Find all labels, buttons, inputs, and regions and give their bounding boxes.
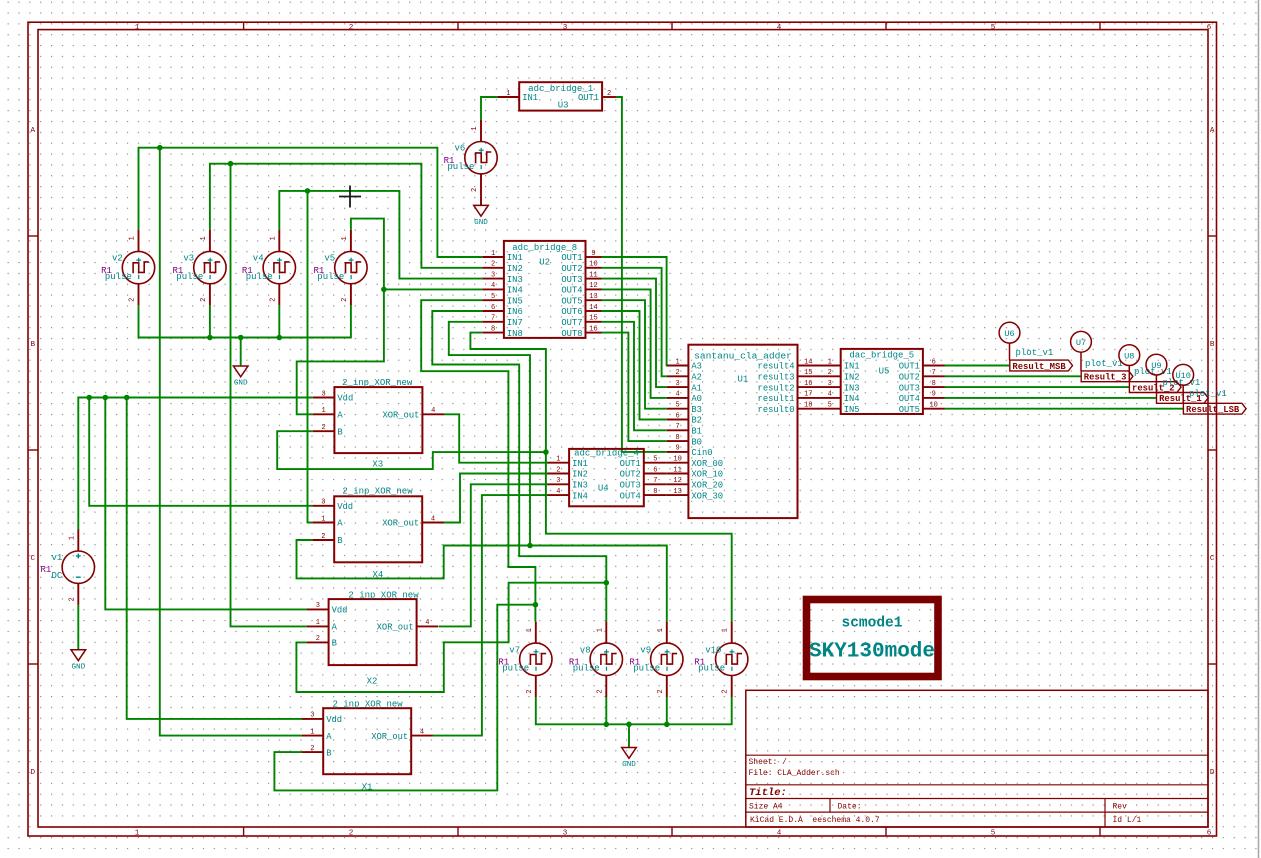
svg-text:1: 1 xyxy=(135,830,140,838)
svg-text:U7: U7 xyxy=(1076,338,1086,348)
svg-text:result4: result4 xyxy=(758,362,795,372)
svg-text:XOR_out: XOR_out xyxy=(382,411,419,421)
svg-text:5: 5 xyxy=(675,402,679,410)
labels for v9 xyxy=(629,645,660,673)
global label result_2 xyxy=(1129,382,1181,394)
svg-text:1: 1 xyxy=(129,236,137,240)
svg-text:10: 10 xyxy=(589,261,597,269)
svg-text:1: 1 xyxy=(135,24,140,32)
wire gnd stem lower xyxy=(628,724,630,747)
svg-text:1: 1 xyxy=(316,619,320,627)
svg-text:IN4: IN4 xyxy=(507,286,523,296)
labels for v3 xyxy=(173,254,204,282)
svg-text:X1: X1 xyxy=(362,783,373,793)
svg-text:3: 3 xyxy=(321,499,325,507)
svg-text:pulse: pulse xyxy=(105,272,132,282)
svg-text:4: 4 xyxy=(675,391,679,399)
svg-text:1: 1 xyxy=(471,126,479,130)
svg-text:2_inp_XOR_new: 2_inp_XOR_new xyxy=(342,487,413,497)
wire v4 top to U2 IN3 xyxy=(279,191,482,279)
voltage source v8 (pulse) xyxy=(590,622,622,697)
svg-text:dac_bridge_5: dac_bridge_5 xyxy=(849,351,914,361)
svg-text:IN4: IN4 xyxy=(572,491,588,501)
svg-text:9: 9 xyxy=(591,250,595,258)
wire X1 out to U4 IN4 xyxy=(433,495,548,735)
svg-text:5: 5 xyxy=(991,24,996,32)
labels for v10 xyxy=(694,645,725,673)
svg-text:2: 2 xyxy=(310,745,314,753)
svg-text:Result_3: Result_3 xyxy=(1084,373,1127,383)
junction v3 bus / X2.A riser xyxy=(228,161,234,167)
svg-text:scmode1: scmode1 xyxy=(842,616,903,632)
wire U2 IN8 to v10 xyxy=(470,333,731,622)
svg-text:B: B xyxy=(337,536,342,546)
svg-text:2: 2 xyxy=(269,298,277,302)
svg-text:GND: GND xyxy=(234,380,248,388)
svg-text:Vdd: Vdd xyxy=(332,606,348,616)
pin wire v6 to ground xyxy=(480,195,482,206)
svg-text:1: 1 xyxy=(269,236,277,240)
junction v5 / IN4 xyxy=(381,287,387,293)
svg-text:U4: U4 xyxy=(598,484,609,494)
svg-text:result1: result1 xyxy=(758,394,795,404)
svg-text:3: 3 xyxy=(321,390,325,398)
editor crosshair cursor xyxy=(339,186,361,208)
svg-text:IN5: IN5 xyxy=(507,296,523,306)
junction v7 / IN5 / X1.B xyxy=(533,602,539,608)
svg-text:plot_v1: plot_v1 xyxy=(1085,359,1123,369)
svg-text:U1: U1 xyxy=(737,375,748,385)
svg-text:4: 4 xyxy=(491,282,495,290)
svg-text:B3: B3 xyxy=(691,405,702,415)
svg-text:A: A xyxy=(337,411,343,421)
svg-text:v5: v5 xyxy=(324,254,335,264)
svg-text:A: A xyxy=(332,623,338,633)
svg-text:result0: result0 xyxy=(758,405,795,415)
svg-text:IN1: IN1 xyxy=(507,253,523,263)
wire v3 top to U2 IN2 xyxy=(210,164,482,268)
svg-text:IN1: IN1 xyxy=(522,93,538,103)
junction Vdd / X2 xyxy=(103,395,109,401)
svg-text:U8: U8 xyxy=(1124,352,1134,362)
svg-text:4: 4 xyxy=(777,24,782,32)
svg-text:v8: v8 xyxy=(580,645,591,655)
svg-text:A1: A1 xyxy=(691,383,702,393)
plot component U8 xyxy=(1119,345,1172,382)
svg-text:Rev: Rev xyxy=(1113,802,1128,811)
svg-text:IN8: IN8 xyxy=(507,329,523,339)
svg-text:DC: DC xyxy=(52,571,63,581)
svg-text:OUT7: OUT7 xyxy=(561,318,582,328)
svg-text:1: 1 xyxy=(321,407,325,415)
svg-text:7: 7 xyxy=(491,315,495,323)
svg-text:SKY130mode: SKY130mode xyxy=(809,641,935,664)
svg-text:A2: A2 xyxy=(691,373,702,383)
svg-text:OUT8: OUT8 xyxy=(561,329,582,339)
plot component U9 xyxy=(1146,354,1200,392)
wire Vdd to X1 xyxy=(127,398,302,719)
labels for v4 xyxy=(242,254,273,282)
plot component U7 xyxy=(1071,331,1123,371)
voltage source v2 (pulse) xyxy=(122,230,154,305)
svg-text:OUT1: OUT1 xyxy=(561,253,582,263)
svg-text:v9: v9 xyxy=(640,645,651,655)
labels for v2 xyxy=(101,254,132,282)
wire v2 net to X1.A xyxy=(160,148,302,736)
wire v8 bottom xyxy=(605,697,607,724)
svg-text:1: 1 xyxy=(596,628,604,632)
svg-text:2: 2 xyxy=(596,689,604,693)
svg-text:U10: U10 xyxy=(1175,371,1190,381)
svg-text:15: 15 xyxy=(589,315,597,323)
svg-text:U3: U3 xyxy=(558,101,569,111)
wire U3 IN1 to v6 xyxy=(481,97,498,120)
svg-text:pulse: pulse xyxy=(447,162,474,172)
svg-text:2: 2 xyxy=(321,424,325,432)
svg-text:plot_v1: plot_v1 xyxy=(1016,348,1054,358)
svg-text:pulse: pulse xyxy=(573,664,600,674)
svg-text:5: 5 xyxy=(991,830,996,838)
svg-text:U9: U9 xyxy=(1151,361,1161,371)
voltage source v3 (pulse) xyxy=(194,230,226,305)
svg-text:7: 7 xyxy=(675,423,679,431)
IC U2 (adc_bridge_8) xyxy=(482,241,601,339)
svg-text:IN1: IN1 xyxy=(844,362,860,372)
wire gnd stem upper xyxy=(240,338,242,367)
svg-text:6: 6 xyxy=(932,358,936,366)
labels for v6 xyxy=(444,144,475,172)
svg-text:10: 10 xyxy=(929,402,937,410)
svg-text:13: 13 xyxy=(673,488,681,496)
svg-text:2: 2 xyxy=(607,90,611,98)
svg-text:R1: R1 xyxy=(41,565,52,575)
svg-text:A0: A0 xyxy=(691,394,702,404)
svg-text:3: 3 xyxy=(556,477,560,485)
voltage source v10 (pulse) xyxy=(716,622,748,697)
voltage source v7 (pulse) xyxy=(520,622,552,697)
ground symbol below v2-v5 bus xyxy=(233,366,248,388)
IC X1 (2_inp_XOR_new) xyxy=(302,699,433,792)
junction bus v9 xyxy=(664,722,670,728)
svg-text:v4: v4 xyxy=(253,254,264,264)
svg-text:7: 7 xyxy=(653,477,657,485)
svg-text:IN4: IN4 xyxy=(844,394,860,404)
svg-text:B0: B0 xyxy=(691,437,702,447)
wire X2.B to v8 net xyxy=(296,583,606,692)
svg-text:pulse: pulse xyxy=(633,664,660,674)
svg-text:IN2: IN2 xyxy=(507,264,523,274)
svg-text:17: 17 xyxy=(804,391,812,399)
junction v4 bus / X4.A riser xyxy=(305,188,311,194)
svg-text:3: 3 xyxy=(316,602,320,610)
svg-text:D: D xyxy=(1210,769,1215,777)
IC U3 (adc_bridge_1) xyxy=(498,82,616,110)
svg-text:2_inp_XOR_new: 2_inp_XOR_new xyxy=(348,590,419,600)
svg-text:OUT4: OUT4 xyxy=(620,491,641,501)
svg-text:2: 2 xyxy=(129,298,137,302)
svg-text:IN6: IN6 xyxy=(507,307,523,317)
svg-text:U2: U2 xyxy=(539,258,550,268)
svg-text:A3: A3 xyxy=(691,362,702,372)
svg-text:2_inp_XOR_new: 2_inp_XOR_new xyxy=(332,699,403,709)
svg-text:GND: GND xyxy=(474,219,488,227)
svg-text:XOR_out: XOR_out xyxy=(371,732,408,742)
wire U2 IN6 to v8 xyxy=(432,311,606,622)
scmode1 / SKY130mode annotation box xyxy=(807,600,939,677)
svg-text:11: 11 xyxy=(589,271,597,279)
wire v1 bottom to GND xyxy=(77,605,79,650)
svg-text:2: 2 xyxy=(316,635,320,643)
svg-text:OUT5: OUT5 xyxy=(899,405,920,415)
svg-text:2: 2 xyxy=(341,298,349,302)
svg-text:U6: U6 xyxy=(1004,329,1014,339)
svg-text:XOR_00: XOR_00 xyxy=(691,459,723,469)
svg-text:GND: GND xyxy=(71,663,85,671)
wire X4.B to v9 net xyxy=(297,540,667,622)
svg-text:1: 1 xyxy=(200,236,208,240)
svg-text:10: 10 xyxy=(673,456,681,464)
IC U5 (dac_bridge_5) xyxy=(819,349,945,415)
wire v1 to Vdd rail xyxy=(78,398,312,530)
svg-text:OUT6: OUT6 xyxy=(561,307,582,317)
wire X3.B to v10 net xyxy=(277,431,546,469)
svg-text:3: 3 xyxy=(675,380,679,388)
svg-text:OUT1: OUT1 xyxy=(620,459,641,469)
svg-text:12: 12 xyxy=(589,282,597,290)
junction v9 / IN7 / X4.B xyxy=(527,543,533,549)
svg-text:OUT4: OUT4 xyxy=(561,286,582,296)
svg-text:IN3: IN3 xyxy=(507,275,523,285)
junction Vdd / X4 xyxy=(86,395,92,401)
svg-text:2: 2 xyxy=(556,466,560,474)
svg-text:2: 2 xyxy=(828,369,832,377)
wire v3 net to X2.A xyxy=(231,164,308,627)
svg-text:B: B xyxy=(332,639,337,649)
svg-text:2: 2 xyxy=(349,24,354,32)
svg-text:15: 15 xyxy=(804,369,812,377)
wire U3 OUT1 to U1 Cin0 xyxy=(616,97,667,452)
svg-text:B: B xyxy=(31,341,36,349)
junction v8 / IN6 / X2.B xyxy=(604,580,610,586)
svg-text:1: 1 xyxy=(526,628,534,632)
svg-text:OUT3: OUT3 xyxy=(620,481,641,491)
junction v2 bus / X1.A riser xyxy=(157,145,163,151)
svg-text:adc_bridge_8: adc_bridge_8 xyxy=(512,243,577,253)
wire Vdd to X2 xyxy=(105,398,307,610)
svg-text:1: 1 xyxy=(310,728,314,736)
IC X2 (2_inp_XOR_new) xyxy=(307,590,438,686)
svg-text:5: 5 xyxy=(828,402,832,410)
global label Result_3 xyxy=(1081,371,1133,383)
wire v4 net to X4.A xyxy=(308,191,313,523)
voltage source v6 (pulse) xyxy=(465,120,497,195)
svg-text:3: 3 xyxy=(310,712,314,720)
svg-text:OUT2: OUT2 xyxy=(620,470,641,480)
svg-text:2: 2 xyxy=(491,261,495,269)
svg-text:8: 8 xyxy=(675,434,679,442)
wires U5 OUT1-OUT5 to Result labels xyxy=(945,365,1010,367)
voltage source v9 (pulse) xyxy=(651,622,683,697)
junction Vdd / X1 xyxy=(124,395,130,401)
labels for v1 xyxy=(41,553,63,581)
svg-text:2: 2 xyxy=(321,533,325,541)
svg-text:2: 2 xyxy=(68,597,76,601)
plot component U6 xyxy=(999,322,1053,360)
svg-text:X4: X4 xyxy=(372,570,383,580)
svg-text:C: C xyxy=(31,555,36,563)
labels for v8 xyxy=(569,645,600,673)
svg-text:11: 11 xyxy=(673,466,681,474)
svg-text:B: B xyxy=(326,748,331,758)
svg-text:OUT1: OUT1 xyxy=(578,93,599,103)
svg-text:D: D xyxy=(31,769,36,777)
svg-text:v7: v7 xyxy=(509,645,520,655)
wire v9 bottom xyxy=(666,697,668,724)
wire Vdd to X4 xyxy=(89,398,312,506)
voltage source v1 (dc) xyxy=(62,530,94,605)
svg-text:OUT4: OUT4 xyxy=(899,394,920,404)
svg-text:16: 16 xyxy=(804,380,812,388)
svg-text:1: 1 xyxy=(722,628,730,632)
svg-text:3: 3 xyxy=(563,24,568,32)
svg-text:6: 6 xyxy=(675,412,679,420)
wire X3 out to U4 IN1 xyxy=(444,414,548,462)
svg-text:2: 2 xyxy=(526,689,534,693)
junction gnd bus stem xyxy=(238,335,244,341)
svg-text:1: 1 xyxy=(491,250,495,258)
svg-text:4: 4 xyxy=(431,407,435,415)
svg-text:XOR_10: XOR_10 xyxy=(691,470,723,480)
svg-text:X2: X2 xyxy=(367,677,378,687)
svg-text:1: 1 xyxy=(341,236,349,240)
svg-text:OUT2: OUT2 xyxy=(561,264,582,274)
svg-text:pulse: pulse xyxy=(246,272,273,282)
svg-text:v3: v3 xyxy=(183,254,194,264)
svg-text:pulse: pulse xyxy=(317,272,344,282)
svg-text:1: 1 xyxy=(68,536,76,540)
svg-text:plot_v1: plot_v1 xyxy=(1189,389,1227,399)
svg-text:1: 1 xyxy=(828,358,832,366)
wire v5 top to X3.A xyxy=(297,219,384,415)
svg-text:pulse: pulse xyxy=(698,664,725,674)
svg-text:IN2: IN2 xyxy=(844,373,860,383)
junction bus stem xyxy=(626,722,632,728)
ground symbol below v6 xyxy=(474,205,489,227)
svg-text:Vdd: Vdd xyxy=(337,502,353,512)
svg-text:result3: result3 xyxy=(758,373,795,383)
global label Result_1 xyxy=(1157,393,1209,405)
svg-text:B: B xyxy=(337,427,342,437)
wire ground bus v7-v10 xyxy=(536,697,732,724)
svg-text:8: 8 xyxy=(932,380,936,388)
svg-text:9: 9 xyxy=(932,391,936,399)
svg-text:1: 1 xyxy=(675,358,679,366)
svg-text:4: 4 xyxy=(556,488,560,496)
IC X4 (2_inp_XOR_new) xyxy=(313,487,444,581)
junction gnd bus v3 xyxy=(207,335,213,341)
svg-text:8: 8 xyxy=(491,325,495,333)
svg-text:5: 5 xyxy=(653,456,657,464)
svg-text:OUT3: OUT3 xyxy=(899,383,920,393)
svg-text:IN3: IN3 xyxy=(572,481,588,491)
voltage source v5 (pulse) xyxy=(335,230,367,305)
svg-text:A: A xyxy=(337,519,343,529)
svg-text:IN2: IN2 xyxy=(572,470,588,480)
svg-text:Cin0: Cin0 xyxy=(691,448,712,458)
svg-text:Sheet: /: Sheet: / xyxy=(749,758,788,767)
svg-text:XOR_out: XOR_out xyxy=(377,623,414,633)
svg-text:14: 14 xyxy=(804,358,812,366)
svg-text:4: 4 xyxy=(777,830,782,838)
svg-text:2: 2 xyxy=(722,689,730,693)
svg-text:13: 13 xyxy=(589,293,597,301)
svg-text:KiCad E.D.A eeschema 4.0.7: KiCad E.D.A eeschema 4.0.7 xyxy=(750,816,880,825)
svg-text:B1: B1 xyxy=(691,427,702,437)
svg-text:pulse: pulse xyxy=(502,664,529,674)
wire ground bus v2-v5 xyxy=(139,305,351,337)
svg-text:pulse: pulse xyxy=(176,272,203,282)
wire v4 bottom xyxy=(278,305,280,337)
svg-text:X3: X3 xyxy=(372,460,383,470)
svg-text:IN5: IN5 xyxy=(844,405,860,415)
svg-text:santanu_cla_adder: santanu_cla_adder xyxy=(694,351,792,362)
svg-text:Result_MSB: Result_MSB xyxy=(1012,362,1066,372)
svg-text:6: 6 xyxy=(653,466,657,474)
svg-text:3: 3 xyxy=(828,380,832,388)
svg-text:Id L/1: Id L/1 xyxy=(1113,816,1142,825)
svg-text:2: 2 xyxy=(675,369,679,377)
svg-text:B: B xyxy=(1210,341,1215,349)
wire U2 IN7 riser xyxy=(449,322,530,546)
labels for v7 xyxy=(498,645,529,673)
wire v2 top to U2 IN1 xyxy=(139,148,483,257)
svg-text:Size A4: Size A4 xyxy=(749,802,783,811)
svg-text:IN3: IN3 xyxy=(844,383,860,393)
svg-text:A: A xyxy=(31,127,36,135)
ground symbol below v1 xyxy=(71,650,86,672)
svg-text:U5: U5 xyxy=(879,367,890,377)
svg-text:Date:: Date: xyxy=(838,802,862,811)
svg-text:16: 16 xyxy=(589,325,597,333)
svg-text:B2: B2 xyxy=(691,416,702,426)
global label Result_LSB xyxy=(1183,403,1246,415)
svg-text:7: 7 xyxy=(932,369,936,377)
IC X3 (2_inp_XOR_new) xyxy=(313,378,444,470)
svg-text:1: 1 xyxy=(506,90,510,98)
svg-text:OUT3: OUT3 xyxy=(561,275,582,285)
wire branch v5 to U2 IN4 xyxy=(384,288,482,290)
wire U2 IN5 to v7 xyxy=(421,300,535,621)
wire X2 out to U4 IN3 xyxy=(439,484,548,626)
wire X1.B to v7 net xyxy=(274,605,535,791)
svg-text:9: 9 xyxy=(675,445,679,453)
svg-text:A: A xyxy=(1210,127,1215,135)
junction bus v8 xyxy=(604,722,610,728)
svg-text:2_inp_XOR_new: 2_inp_XOR_new xyxy=(342,378,413,388)
svg-text:v2: v2 xyxy=(112,254,123,264)
ground symbol below v7-v10 bus xyxy=(622,748,637,770)
svg-text:5: 5 xyxy=(491,293,495,301)
svg-text:6: 6 xyxy=(491,304,495,312)
svg-text:2: 2 xyxy=(200,298,208,302)
svg-text:2: 2 xyxy=(471,188,479,192)
wires U2 OUT1-OUT8 to U1 pins 1-8 xyxy=(602,257,667,366)
svg-text:OUT5: OUT5 xyxy=(561,296,582,306)
svg-text:2: 2 xyxy=(657,689,665,693)
title block xyxy=(746,690,1208,827)
svg-text:IN7: IN7 xyxy=(507,318,523,328)
IC U1 (santanu_cla_adder) xyxy=(667,345,819,518)
